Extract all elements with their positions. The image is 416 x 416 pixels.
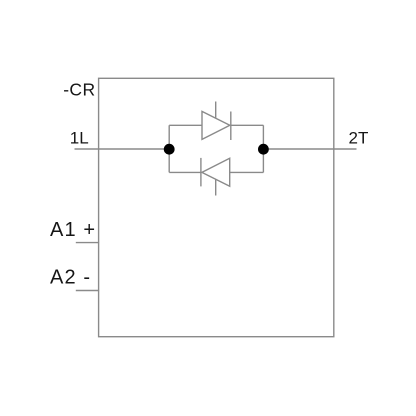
node left junction xyxy=(164,144,175,155)
thyristor V1 top (anode left, cathode right) xyxy=(202,102,231,141)
node right junction xyxy=(258,144,269,155)
wire A2 stub xyxy=(76,290,99,292)
wire parallel loop left vertical xyxy=(168,125,170,172)
wire bottom branch right segment xyxy=(230,171,264,173)
svg-text:A2 -: A2 - xyxy=(50,267,91,289)
thyristor V2 bottom (anode right, cathode left) xyxy=(201,158,230,196)
wire bottom branch left segment xyxy=(169,171,201,173)
wire top branch left segment xyxy=(169,124,202,126)
wire top branch right segment xyxy=(231,124,264,126)
wire 1L input xyxy=(75,148,170,150)
svg-text:2T: 2T xyxy=(349,129,369,148)
svg-text:A1 +: A1 + xyxy=(50,219,96,241)
wire 2T output xyxy=(263,148,356,150)
wire A1 stub xyxy=(76,242,99,244)
wire parallel loop right vertical xyxy=(262,125,264,172)
relay outline box -CR xyxy=(99,78,334,336)
svg-text:1L: 1L xyxy=(70,129,89,148)
svg-text:-CR: -CR xyxy=(63,80,95,100)
